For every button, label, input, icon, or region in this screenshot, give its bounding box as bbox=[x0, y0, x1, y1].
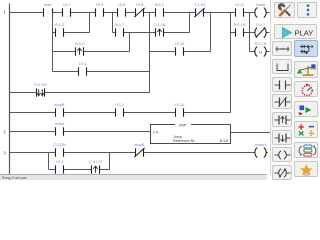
svg-text:1: 1 bbox=[3, 10, 6, 15]
wire branch vertical J1 x52.5 bbox=[52, 13, 54, 72]
wire rung1 B:0.2 to T:4.1N bbox=[164, 12, 196, 14]
svg-text:B:0.2: B:0.2 bbox=[155, 3, 164, 7]
contact I:0.10 lower (no) bbox=[175, 103, 185, 117]
toolbar button: icon rising edge contact bbox=[272, 112, 292, 127]
wire branch vertical J4 x149.5 bbox=[149, 13, 151, 93]
contact stopB (no) bbox=[55, 103, 65, 117]
toolbar button: icon coil bbox=[272, 147, 292, 162]
contact B:1.2 (no) bbox=[55, 23, 64, 37]
wire rung3 branch vertical right x109.5 bbox=[109, 153, 111, 170]
svg-text:C:1.2N: C:1.2N bbox=[154, 23, 166, 27]
svg-text:B:0.7: B:0.7 bbox=[115, 23, 124, 27]
toolbar button: icon falling edge contact bbox=[272, 130, 292, 145]
contact O:1.2 (no) bbox=[115, 103, 124, 117]
toolbar button: icon favorites star bbox=[294, 161, 318, 177]
contact I:0.1 (no) bbox=[63, 3, 71, 17]
coil O:0.1 (nc) bbox=[255, 23, 266, 37]
wire coilrow3 coil stub bbox=[266, 51, 269, 53]
toolbar button: icon debug markers bbox=[294, 101, 318, 117]
contact motor contact (no) bbox=[55, 122, 65, 136]
svg-text:PLAY: PLAY bbox=[294, 28, 313, 37]
svg-text:I:0.10: I:0.10 bbox=[175, 103, 185, 107]
wire rung1 I:0.11 to motor coil bbox=[244, 12, 255, 14]
svg-text:I:0.8: I:0.8 bbox=[136, 3, 143, 7]
svg-text:stopB: stopB bbox=[135, 143, 145, 147]
wire rung3 branch I:0.3 to C:4.CO bbox=[64, 169, 92, 171]
wire branch2 seg2 bbox=[150, 51, 176, 53]
svg-text:3: 3 bbox=[3, 150, 6, 155]
svg-text:Reference fld: Reference fld bbox=[173, 139, 194, 143]
contact I:0.4 (no) bbox=[79, 62, 87, 76]
wire branch4 rail to R:2.DN bbox=[10, 92, 37, 94]
wire branch5 stopB to O:1.2 bbox=[64, 112, 116, 114]
right toolbar panel bbox=[270, 0, 320, 174]
wire branch3 left bbox=[53, 71, 79, 73]
wire rung2 motor to JMP box bbox=[64, 131, 151, 133]
toolbar button: icon math operations bbox=[294, 121, 318, 138]
contact B:0.2 (no) bbox=[155, 3, 164, 17]
svg-text:I:0.4: I:0.4 bbox=[79, 62, 86, 66]
svg-text:start: start bbox=[44, 3, 52, 7]
contact I:0.6 (no) bbox=[118, 3, 126, 17]
toolbar button: icon network editor (selected) bbox=[294, 40, 318, 57]
wire coilrow2 to coil bbox=[244, 32, 255, 34]
wire rung1 I:0.1 to I:0.5 bbox=[71, 12, 96, 14]
toolbar button: menu (vertical dots) bbox=[297, 2, 318, 18]
wire rung1 T:4.1N to I:0.11 bbox=[204, 12, 236, 14]
contact I:0.3 (no) bbox=[56, 160, 64, 174]
wire rung1 coil stub bbox=[266, 12, 269, 14]
toolbar button: icon program cycle bbox=[294, 142, 318, 158]
contact I:0.11 (no) bbox=[235, 3, 244, 17]
wire coilrow2 coil stub bbox=[266, 32, 269, 34]
contact C:1.2N (osr) bbox=[154, 23, 166, 37]
svg-text:O:0.1: O:0.1 bbox=[256, 23, 265, 27]
toolbar button: icon NC contact bbox=[272, 94, 292, 109]
wire branch1 left stub bbox=[53, 32, 56, 34]
svg-text:motor: motor bbox=[55, 122, 65, 126]
contact stopB nc (nc) bbox=[134, 143, 145, 157]
contact I:0.8 (nc) bbox=[134, 3, 144, 17]
svg-text:B:1.2: B:1.2 bbox=[55, 23, 64, 27]
contact C:2.DN (no) bbox=[53, 143, 66, 157]
svg-text:motor1: motor1 bbox=[255, 143, 267, 147]
svg-text:C:4.CO: C:4.CO bbox=[89, 160, 102, 164]
svg-text:T:4.1N: T:4.1N bbox=[194, 3, 205, 7]
wire rung1 I:0.5 to I:0.6 bbox=[104, 12, 118, 14]
svg-text:I:0.6: I:0.6 bbox=[118, 3, 125, 7]
wire rung3 branch right stub bbox=[100, 169, 110, 171]
wire branch5 O:1.2 to I:0.10 bbox=[124, 112, 176, 114]
wire rung1 I:0.6 to I:0.8 bbox=[126, 12, 136, 14]
contact C:4.CO (osr) bbox=[89, 160, 102, 174]
wire branch2 left bbox=[53, 51, 76, 53]
svg-text:O:1.2: O:1.2 bbox=[115, 103, 124, 107]
wire rung3 branch vertical left x48.5 bbox=[48, 153, 50, 170]
svg-text:2: 2 bbox=[3, 129, 6, 134]
wire branch1 C:1.2N to up bbox=[164, 32, 190, 34]
wire coilrow2 stub bbox=[231, 32, 236, 34]
svg-text:I:0.1: I:0.1 bbox=[63, 3, 70, 7]
contact B:4.2 (osr) bbox=[75, 42, 84, 56]
wire coilrow3 to coil bbox=[250, 51, 255, 53]
coil motor (no) bbox=[255, 3, 266, 17]
wire branch vertical J7 x230.5 bbox=[230, 13, 232, 113]
svg-text:I:0.11: I:0.11 bbox=[235, 3, 244, 7]
wire branch vertical J6 x210.5 bbox=[210, 13, 212, 52]
wire branch3 I:0.4 to long vertical bbox=[87, 71, 150, 73]
svg-text:R:2.DN: R:2.DN bbox=[34, 83, 47, 87]
wire branch2 B:4.2 to up bbox=[84, 51, 130, 53]
toolbar button: icon stopwatch bbox=[294, 81, 318, 97]
wire rung2 JMP box to right edge bbox=[231, 132, 273, 134]
wire branch vertical x129.5 bbox=[129, 33, 131, 52]
contact R:0.1N (no) bbox=[234, 23, 246, 37]
svg-text:EN: EN bbox=[153, 131, 159, 135]
svg-text:I:0.10: I:0.10 bbox=[175, 42, 185, 46]
status bar bbox=[0, 174, 267, 180]
wire branch1 B:0.7 to C:1.2N bbox=[124, 32, 156, 34]
svg-text:R:2.1N: R:2.1N bbox=[255, 42, 267, 46]
wire rung3 rail to C:2.DN bbox=[10, 152, 56, 154]
wire rung1 I:0.8 to B:0.2 bbox=[144, 12, 156, 14]
left power rail bbox=[9, 4, 11, 175]
wire rung3 stopB to coil bbox=[144, 152, 255, 154]
svg-text:R:0.1N: R:0.1N bbox=[234, 23, 246, 27]
wire branch vertical J3 x112.5 bbox=[112, 13, 114, 33]
wire branch vertical J2 x89.5 bbox=[89, 13, 91, 33]
toolbar button: icon NC coil bbox=[272, 165, 292, 180]
coil motor1 (no) bbox=[255, 143, 267, 157]
wire rung3 C:2.DN to stopB bbox=[64, 152, 136, 154]
svg-text:I:0.3: I:0.3 bbox=[56, 160, 63, 164]
wire branch1 B:1.2 to up bbox=[64, 32, 90, 34]
svg-text:B:4.2: B:4.2 bbox=[75, 42, 84, 46]
svg-text:C:2.DN: C:2.DN bbox=[53, 143, 66, 147]
contact start (no) bbox=[44, 3, 53, 17]
wire branch2 I:0.10 to up bbox=[184, 51, 211, 53]
toolbar button: icon branch bbox=[272, 59, 292, 74]
svg-text:u: u bbox=[259, 49, 262, 54]
coil R:2.1N (no) bbox=[255, 42, 267, 56]
svg-text:I:0.5: I:0.5 bbox=[96, 3, 103, 7]
toolbar button: settings (wrench & screwdriver) bbox=[274, 2, 295, 18]
toolbar button: icon NO contact bbox=[272, 77, 292, 92]
toolbar button: icon scale/compare bbox=[294, 61, 318, 78]
wire rung3 branch left stub bbox=[49, 169, 56, 171]
svg-text:motor: motor bbox=[256, 3, 266, 7]
contact I:0.10 upper (no) bbox=[175, 42, 185, 56]
wire rung2 rail to motor bbox=[10, 131, 56, 133]
ladder diagram canvas bbox=[0, 0, 320, 180]
wire branch vertical J5 x189.5 bbox=[189, 13, 191, 33]
wire branch5 I:0.10 to up bbox=[184, 112, 231, 114]
contact T:4.1N (nc) bbox=[194, 3, 205, 17]
wire rung3 coil stub bbox=[266, 152, 268, 154]
svg-text:JMP: JMP bbox=[179, 123, 187, 128]
toolbar button: icon wire segment bbox=[272, 41, 292, 56]
wire rung1 rail to start bbox=[10, 12, 44, 14]
svg-text:B:3.8: B:3.8 bbox=[220, 139, 228, 143]
wire coil branch vertical x249.5 bbox=[249, 13, 251, 52]
contact R:2.DN (osf) bbox=[34, 83, 47, 97]
wire branch1 seg2 stub bbox=[113, 32, 116, 34]
toolbar button: PLAY bbox=[274, 24, 317, 39]
wire branch4 R:2.DN to long vertical bbox=[45, 92, 150, 94]
function block JMP bbox=[151, 123, 231, 144]
svg-text:stopB: stopB bbox=[55, 103, 65, 107]
wire branch5 rail to stopB bbox=[10, 112, 56, 114]
contact B:0.7 (no) bbox=[115, 23, 124, 37]
wire rung1 start to I:0.1 bbox=[53, 12, 63, 14]
contact I:0.5 (no) bbox=[96, 3, 104, 17]
